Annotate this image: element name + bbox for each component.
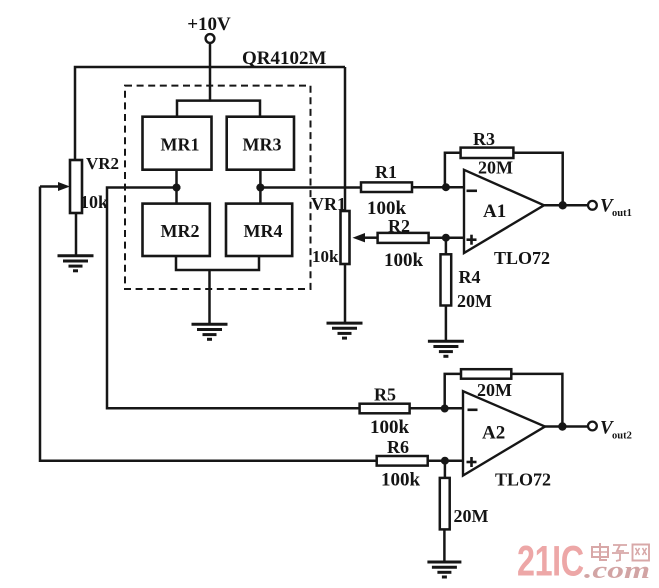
magnetoresistor MR2 bbox=[143, 204, 210, 256]
svg-text:MR2: MR2 bbox=[161, 221, 200, 241]
wire 20M to ground bbox=[443, 529, 446, 561]
svg-text:10k: 10k bbox=[312, 247, 339, 266]
svg-text:.com: .com bbox=[584, 558, 650, 584]
svg-text:R3: R3 bbox=[473, 129, 495, 149]
glyph dian bbox=[592, 543, 608, 560]
svg-text:VR1: VR1 bbox=[311, 194, 346, 214]
wire +10V to bridge top bbox=[209, 43, 212, 102]
svg-text:out2: out2 bbox=[612, 431, 632, 442]
svg-text:20M: 20M bbox=[457, 291, 492, 311]
node A2 output bbox=[558, 422, 566, 430]
magnetoresistor MR1 bbox=[143, 117, 212, 170]
magnetoresistor MR3 bbox=[227, 117, 294, 170]
wire R1 to A1 inverting input bbox=[412, 186, 464, 189]
wire A1 output bbox=[544, 204, 588, 207]
svg-text:+10V: +10V bbox=[187, 14, 231, 35]
wire A1 feedback right bbox=[513, 153, 562, 206]
wire VR1 to ground bbox=[344, 264, 347, 323]
wire bridge top bbox=[177, 101, 260, 117]
svg-text:out1: out1 bbox=[612, 208, 632, 219]
potentiometer VR2 bbox=[70, 154, 119, 213]
resistor R1 bbox=[361, 162, 412, 219]
op-amp U2 A2 bbox=[463, 391, 551, 489]
wire R6 to A2 non-inverting input bbox=[428, 459, 463, 462]
wire A2 non-inverting to 20M bbox=[444, 461, 447, 478]
node A1 non-inverting input bbox=[442, 234, 450, 242]
svg-text:QR4102M: QR4102M bbox=[242, 48, 327, 69]
svg-text:20M: 20M bbox=[477, 380, 512, 400]
wire A2 feedback right bbox=[511, 374, 562, 427]
wire VR2 wiper rail to R6 bbox=[40, 187, 377, 461]
wire bridge left output to R5 bbox=[107, 188, 360, 409]
glyph zi bbox=[612, 545, 629, 561]
wire rail to VR1 top bbox=[344, 67, 347, 211]
magnetoresistor MR4 bbox=[226, 204, 292, 256]
ground bridge bbox=[192, 324, 228, 339]
svg-text:100k: 100k bbox=[384, 250, 424, 271]
ground VR2 bbox=[58, 256, 94, 271]
terminal Vout1 bbox=[588, 196, 632, 220]
wire VR2 to ground bbox=[75, 213, 78, 256]
wire R4 to ground bbox=[445, 306, 448, 342]
wire A2 output bbox=[545, 425, 588, 428]
power terminal +10V bbox=[206, 34, 215, 43]
glyph wang bbox=[633, 545, 650, 561]
wire R5 to A2 inverting input bbox=[410, 407, 463, 410]
node bridge left output bbox=[173, 184, 181, 192]
svg-text:MR1: MR1 bbox=[161, 135, 200, 155]
resistor R3 bbox=[461, 129, 514, 178]
svg-text:R4: R4 bbox=[459, 267, 481, 287]
terminal Vout2 bbox=[588, 418, 632, 442]
node A1 output bbox=[559, 201, 567, 209]
svg-text:R5: R5 bbox=[374, 385, 396, 405]
svg-text:TLO72: TLO72 bbox=[495, 470, 551, 490]
ground VR1 bbox=[327, 323, 363, 338]
svg-text:100k: 100k bbox=[381, 470, 421, 491]
svg-text:100k: 100k bbox=[370, 417, 410, 438]
ground A2 bbox=[427, 562, 461, 577]
wire R2 to A1 non-inverting input bbox=[429, 236, 464, 239]
wire A2 feedback left bbox=[445, 374, 461, 409]
wire bridge right output to R1 bbox=[256, 186, 361, 189]
node A2 non-inverting input bbox=[441, 457, 449, 465]
resistor R2 bbox=[378, 216, 429, 271]
node bridge right output bbox=[256, 184, 264, 192]
potentiometer VR1 bbox=[311, 194, 350, 266]
svg-text:21IC: 21IC bbox=[517, 537, 584, 584]
svg-text:20M: 20M bbox=[478, 158, 513, 178]
svg-text:R6: R6 bbox=[387, 437, 409, 457]
wire VR2 wiper arrow bbox=[40, 182, 70, 191]
svg-text:A2: A2 bbox=[482, 423, 505, 444]
wire bridge bottom to ground bbox=[208, 270, 211, 324]
svg-text:A1: A1 bbox=[483, 201, 506, 222]
node A1 inverting input bbox=[442, 183, 450, 191]
svg-text:20M: 20M bbox=[454, 506, 489, 526]
svg-text:MR3: MR3 bbox=[243, 135, 282, 155]
resistor 20M feedback of A2 bbox=[461, 369, 512, 400]
svg-text:TLO72: TLO72 bbox=[494, 248, 550, 268]
wire A1 feedback left bbox=[445, 153, 461, 187]
op-amp U1 A1 bbox=[464, 170, 550, 268]
resistor 20M at A2 non-inverting input bbox=[440, 478, 489, 530]
resistor R4 bbox=[441, 254, 493, 311]
svg-text:VR2: VR2 bbox=[86, 154, 119, 173]
wire MR3 to MR4 bbox=[259, 170, 262, 204]
node A2 inverting input bbox=[441, 405, 449, 413]
wire MR1 to MR2 bbox=[175, 170, 178, 204]
resistor R6 bbox=[377, 437, 428, 491]
svg-text:MR4: MR4 bbox=[244, 221, 283, 241]
watermark 21IC.com logo bbox=[517, 537, 650, 584]
bridge dashed box QR4102M bbox=[125, 86, 311, 289]
svg-text:R2: R2 bbox=[388, 216, 410, 236]
wire top supply rail bbox=[75, 67, 345, 160]
svg-text:10k: 10k bbox=[80, 192, 108, 212]
wire R2 to VR1 wiper arrow bbox=[353, 233, 378, 242]
ground R4 bbox=[428, 341, 464, 356]
wire bridge bottom bbox=[176, 256, 259, 270]
svg-text:R1: R1 bbox=[375, 162, 397, 182]
resistor R5 bbox=[360, 385, 410, 439]
wire A1 non-inverting to R4 bbox=[445, 238, 448, 255]
